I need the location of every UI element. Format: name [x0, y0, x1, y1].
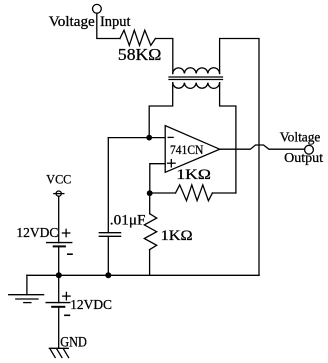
wire resistor to transformer	[155, 39, 172, 74]
wire battery2 to chassis ground	[58, 307, 60, 349]
wire resistor to rail	[149, 250, 151, 276]
svg-text:12VDC: 12VDC	[70, 297, 112, 312]
wire rail to battery2	[58, 275, 60, 302]
capacitor wire bottom	[107, 237, 109, 276]
capacitor C1 plates	[99, 232, 120, 234]
output terminal circle	[305, 145, 314, 154]
input terminal circle	[93, 4, 102, 13]
svg-text:.01μF: .01μF	[110, 212, 146, 228]
chassis ground symbol	[49, 347, 68, 349]
wire feedback right	[212, 192, 236, 194]
wire battery1 to rail	[58, 246, 60, 275]
op-amp U1 triangle	[165, 126, 220, 173]
battery B1 plates	[47, 242, 72, 244]
battery B1 minus sign	[68, 253, 72, 255]
svg-text:741CN: 741CN	[170, 143, 203, 157]
svg-text:1KΩ: 1KΩ	[176, 167, 211, 183]
node dot noninverting node	[147, 190, 153, 196]
svg-text:GND: GND	[60, 335, 87, 351]
capacitor wire top	[107, 138, 109, 233]
node dot inverting input	[146, 135, 152, 141]
wire secondary right down to feedback	[220, 83, 236, 193]
wire VCC to battery	[58, 196, 60, 242]
wire primary right stub up and across top	[220, 39, 259, 276]
svg-text:Voltage: Voltage	[280, 130, 321, 145]
transformer core lines	[169, 76, 223, 78]
svg-text:Output: Output	[284, 151, 323, 166]
wire inverting input	[108, 137, 165, 139]
svg-text:1KΩ: 1KΩ	[161, 228, 193, 244]
transformer secondary coil	[173, 83, 220, 89]
wire earth branch	[26, 275, 28, 294]
resistor feedback 1K zigzag	[176, 185, 213, 201]
wire input drop and across	[97, 13, 120, 38]
wire secondary left to inverting input node	[149, 83, 173, 138]
svg-text:Voltage: Voltage	[49, 14, 95, 30]
wire noninverting node down	[149, 193, 151, 214]
VCC terminal circle	[56, 191, 61, 196]
wire output with hop	[220, 145, 305, 149]
resistor 58K zigzag	[120, 30, 155, 45]
op-amp minus sign	[168, 136, 173, 138]
op-amp plus sign	[168, 162, 176, 164]
ground rail	[27, 274, 259, 276]
node dot rail battery	[56, 272, 62, 278]
earth ground symbol	[9, 294, 44, 296]
svg-text:58KΩ: 58KΩ	[118, 45, 161, 64]
battery B2 plates	[46, 302, 70, 304]
wire feedback left	[150, 192, 176, 194]
resistor vertical 1K zigzag	[144, 214, 156, 250]
node dot rail capacitor	[105, 272, 111, 278]
battery B1 plus sign	[62, 232, 69, 234]
svg-text:12VDC: 12VDC	[16, 225, 58, 240]
wire noninverting input	[150, 164, 165, 194]
svg-text:VCC: VCC	[46, 173, 71, 187]
battery B2 minus sign	[65, 314, 70, 316]
svg-text:Input: Input	[100, 14, 131, 30]
battery B2 plus sign	[63, 295, 70, 297]
transformer primary coil	[173, 68, 220, 74]
